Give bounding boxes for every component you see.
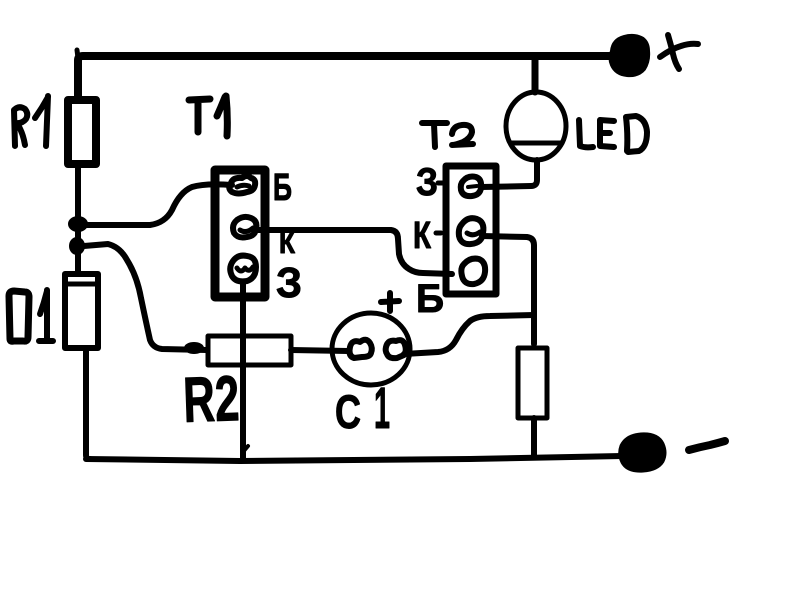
resistor R2 (208, 336, 291, 365)
capacitor C1 body (332, 313, 410, 385)
transistor T1 body (215, 170, 265, 297)
label T1 (189, 99, 210, 132)
diode D1 (65, 274, 98, 348)
LED circle (506, 92, 566, 160)
wire ground rail bottom (86, 456, 622, 461)
pin Б (T1) (229, 176, 255, 194)
wire R3 bottom to ground rail (531, 418, 537, 456)
svg-text:К: К (413, 215, 432, 257)
label − (689, 441, 725, 450)
resistor R1 (68, 100, 96, 164)
wire T2 К pin to node C down to R3 (482, 236, 534, 344)
label LED (579, 116, 647, 152)
LED chord (511, 141, 562, 146)
wire node B down to R2 left (84, 244, 206, 350)
pin З (T2) (461, 177, 481, 197)
node − terminal blob (621, 435, 664, 470)
capacitor C1 left plate (350, 340, 372, 358)
svg-text:З: З (416, 161, 438, 204)
svg-text:1: 1 (374, 376, 390, 441)
svg-text:Б: Б (416, 277, 444, 321)
resistor R3 (518, 348, 547, 418)
svg-text:C: C (335, 385, 361, 438)
wire rail to LED top (532, 57, 539, 92)
pin К (T1) (233, 217, 256, 238)
svg-text:З: З (276, 259, 302, 307)
label R1 (14, 107, 27, 146)
junction node A (69, 217, 87, 231)
transistor T2 body (446, 166, 496, 294)
wire R2 right lead to C1 (291, 350, 348, 351)
junction node B (70, 238, 84, 254)
capacitor C1 right plate (386, 340, 406, 358)
svg-text:Б: Б (273, 167, 292, 209)
pin К (T2) (459, 218, 484, 244)
label + (C1 polarity) (381, 293, 399, 311)
wire LED bottom to T2 З pin (481, 160, 537, 187)
wire T1 emitter down to ground rail (240, 284, 246, 458)
wire R1 bottom to junction (75, 168, 81, 224)
wire D1 bottom to ground rail (86, 351, 90, 459)
label D1 (9, 291, 29, 341)
wire R2 left lead blob (185, 343, 203, 353)
pin Б (T2) (461, 259, 485, 285)
svg-text:R2: R2 (182, 362, 240, 436)
label + (660, 44, 698, 57)
wire T1 collector to T2 base (257, 230, 452, 274)
node + terminal blob (611, 36, 649, 75)
pin З (T1) (230, 256, 256, 282)
wire node A to T1 base (S-curve) (86, 184, 232, 225)
wire junction to D1 (75, 224, 81, 271)
wire positive rail top (78, 56, 614, 97)
label T2 (422, 123, 473, 147)
wire C1 to node C vertical (404, 315, 534, 354)
